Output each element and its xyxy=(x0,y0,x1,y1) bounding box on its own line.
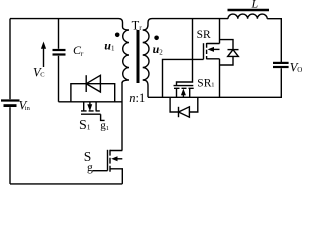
wire left bus lower xyxy=(9,107,11,184)
svg-text:2: 2 xyxy=(159,48,163,56)
node dot u2 xyxy=(154,36,159,41)
transistor SR1 mosfet xyxy=(174,85,194,87)
transistor S mosfet xyxy=(107,150,109,171)
svg-text:1: 1 xyxy=(87,122,91,131)
wire bottom rail xyxy=(10,183,122,185)
svg-text:1: 1 xyxy=(111,45,115,53)
wire SR gate from u2 bottom xyxy=(163,59,204,97)
capacitor Cr xyxy=(53,49,66,51)
transformer Tr core xyxy=(137,30,140,83)
svg-text:SR: SR xyxy=(197,29,211,41)
wire clamp node horizontal xyxy=(59,101,123,103)
diode D-SR body (cathode up) xyxy=(220,40,234,50)
svg-text:n:1: n:1 xyxy=(129,91,145,105)
transformer Tr primary winding xyxy=(122,27,129,83)
wire SR drain riser xyxy=(219,19,221,44)
svg-text:S: S xyxy=(79,118,87,133)
wire SR1 gate from rail xyxy=(177,19,193,86)
inductor L winding xyxy=(228,14,267,19)
wire output cap bottom xyxy=(220,68,282,97)
svg-text:r: r xyxy=(139,23,142,32)
svg-text:O: O xyxy=(297,66,302,74)
inductor L core bar xyxy=(228,9,270,11)
arrow Vc xyxy=(43,48,45,68)
svg-text:1: 1 xyxy=(211,81,214,88)
wire L to output xyxy=(267,19,281,62)
wire top rail primary xyxy=(10,19,123,27)
wire primary bottom vertical xyxy=(121,83,123,151)
svg-text:SR: SR xyxy=(197,78,211,90)
transformer Tr secondary winding xyxy=(143,23,149,98)
diode D-SR1 (points left) xyxy=(170,97,178,112)
wire Cr branch bottom xyxy=(58,56,60,102)
svg-text:1: 1 xyxy=(106,125,109,132)
wire SR source down xyxy=(219,59,221,98)
source Vin battery xyxy=(1,99,20,101)
wire left bus upper xyxy=(9,19,11,100)
wire Cr branch top xyxy=(58,19,60,49)
svg-text:C: C xyxy=(40,72,44,79)
diode D1 clamp (points left) xyxy=(85,75,87,92)
wire secondary bottom xyxy=(148,96,220,98)
svg-text:g: g xyxy=(87,162,93,174)
transistor SR mosfet xyxy=(203,43,205,59)
transistor S1 mosfet xyxy=(83,102,85,111)
wire secondary top rail xyxy=(148,19,228,23)
svg-text:r: r xyxy=(81,50,84,58)
node dot u1 xyxy=(115,33,120,38)
svg-text:L: L xyxy=(251,0,259,11)
wire clamp diode branch xyxy=(71,84,115,102)
capacitor Co output xyxy=(273,62,289,64)
svg-text:in: in xyxy=(25,105,31,112)
